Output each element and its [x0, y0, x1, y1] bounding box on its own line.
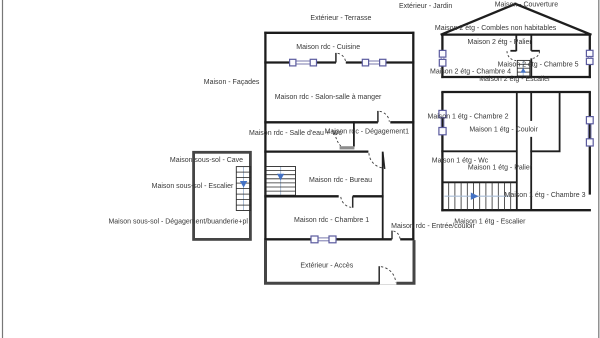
window W5 2etg right: [586, 50, 593, 64]
label: Maison rdc - Entree/couloir: [391, 223, 475, 230]
svg-text:Maison 1 étg - Couloir: Maison 1 étg - Couloir: [469, 127, 538, 134]
door: salon/degagement1 (leaf + swing): [378, 111, 389, 122]
door: cuisine (leaf + swing): [336, 53, 346, 63]
wall: sous-sol box: [194, 152, 251, 239]
page left edge: [2, 0, 4, 338]
wall: 2etg palier right vertical + jamb: [531, 35, 540, 78]
label: Maison 2 etg - Escalier: [479, 76, 551, 83]
wall: 2etg palier left vertical + jamb: [510, 35, 516, 52]
door swing: wc dashed arc: [335, 133, 341, 146]
window W7 1etg right: [586, 117, 593, 146]
label: Exterieur - Acces: [300, 262, 353, 269]
arrow: sous-sol stairs down arrow: [240, 181, 247, 188]
window W6 1etg left: [439, 110, 446, 134]
svg-text:Maison 1 étg - Wc: Maison 1 étg - Wc: [432, 157, 489, 164]
wall: 2etg outer: [441, 35, 591, 79]
wall: acces left/bottom/right thick: [266, 240, 415, 283]
wall: 1etg chambre2/wc horizontal: [441, 150, 517, 152]
svg-text:Maison 2 étg - Combles non hab: Maison 2 étg - Combles non habitables: [435, 25, 557, 32]
wall: salle d'eau bottom: [264, 150, 368, 152]
wall: wc/degagement vertical: [353, 121, 355, 146]
label: Maison rdc - Bureau: [309, 177, 372, 184]
label: Maison rdc - Salon-salle a manger: [275, 94, 382, 101]
window W3 chambre1: [311, 236, 336, 243]
label: Maison 2 etg - Chambre 5: [498, 62, 579, 69]
label: Maison - Facades: [204, 79, 260, 86]
label: Maison sous-sol - Cave: [170, 157, 243, 164]
window W4 2etg left: [439, 50, 446, 66]
window W2 cuisine right: [362, 59, 386, 66]
label: Maison sous-sol - Degagement/buanderie: [108, 219, 248, 226]
door: acces entrance (leaf + swing): [379, 266, 396, 284]
label: Maison rdc - Cuisine: [296, 44, 360, 51]
wall: 1etg escalier top: [442, 181, 516, 183]
svg-text:Maison rdc - Bureau: Maison rdc - Bureau: [309, 177, 372, 184]
label: Maison 1 etg - Palier: [468, 165, 533, 172]
wall: 1etg outer: [441, 92, 591, 211]
label: Maison 2 etg - Combles non habitables: [435, 25, 557, 32]
door: wc pocket door (gray): [340, 146, 355, 149]
wall: rdc bottom (window wall): [264, 238, 414, 240]
label: Exterieur - Jardin: [399, 3, 452, 10]
wall: rdc outer right: [412, 32, 414, 240]
svg-text:Maison 1 étg - Escalier: Maison 1 étg - Escalier: [454, 218, 526, 225]
wall: rdc outer top: [264, 32, 414, 34]
svg-text:Maison sous-sol - Dégagement/b: Maison sous-sol - Dégagement/buanderie+p…: [108, 219, 248, 226]
svg-text:Maison - Façades: Maison - Façades: [204, 79, 260, 86]
svg-text:Maison 1 étg - Chambre 3: Maison 1 étg - Chambre 3: [505, 192, 586, 199]
roof: couverture: [441, 4, 592, 35]
stairs: 2etg escalier: [517, 60, 530, 76]
door swing: 2etg chambre4 dashed arc: [507, 51, 516, 60]
label: Maison rdc - Salle d'eau + Wc: [249, 130, 342, 137]
door: entree/acces (leaf + swing): [392, 231, 400, 240]
svg-text:Extérieur - Terrasse: Extérieur - Terrasse: [310, 15, 371, 22]
svg-text:Maison rdc - Chambre 1: Maison rdc - Chambre 1: [294, 217, 369, 224]
label: Maison sous-sol - Escalier: [152, 183, 234, 190]
wall: bureau/couloir vertical: [382, 152, 384, 240]
label: Maison 1 etg - Chambre 2: [428, 114, 509, 121]
arrow: rdc stairs down arrow: [277, 174, 284, 181]
label: Exterieur - Terrasse: [310, 15, 371, 22]
label: Maison 1 etg - Wc: [432, 157, 489, 164]
window W1 cuisine left: [290, 59, 317, 66]
svg-text:Extérieur - Accès: Extérieur - Accès: [300, 262, 353, 269]
label: Maison 2 etg - Chambre 4: [430, 68, 511, 75]
stairs: 1etg escalier: [449, 182, 511, 210]
svg-text:Maison sous-sol - Escalier: Maison sous-sol - Escalier: [152, 183, 234, 190]
wall: salon bottom: [264, 121, 414, 123]
label: Maison 1 etg - Couloir: [469, 127, 538, 134]
svg-text:Maison sous-sol - Cave: Maison sous-sol - Cave: [170, 157, 243, 164]
svg-text:Maison rdc - Salon-salle à man: Maison rdc - Salon-salle à manger: [275, 94, 382, 101]
svg-text:Maison 2 étg - Escalier: Maison 2 étg - Escalier: [479, 76, 551, 83]
door swing: 2etg chambre5 dashed arc: [532, 51, 540, 58]
stairs: sous-sol staircase: [236, 167, 250, 211]
wall: cuisine/salon window wall: [264, 61, 414, 63]
door: bureau/chambre1 (leaf + swing): [341, 196, 353, 207]
svg-text:Maison - Couverture: Maison - Couverture: [495, 1, 559, 8]
label: Maison 1 etg - Escalier: [454, 218, 526, 225]
door: degagement1/couloir (leaf + swing): [369, 152, 385, 169]
svg-text:Maison 2 étg - Palier: Maison 2 étg - Palier: [467, 39, 532, 46]
svg-text:Maison 2 étg - Chambre 4: Maison 2 étg - Chambre 4: [430, 68, 511, 75]
page right edge: [598, 0, 600, 338]
svg-text:Extérieur - Jardin: Extérieur - Jardin: [399, 3, 452, 10]
svg-text:Maison 1 étg - Chambre 2: Maison 1 étg - Chambre 2: [428, 114, 509, 121]
wall: 1etg chambre2/couloir vertical: [516, 92, 518, 210]
wall: rdc outer left: [264, 32, 266, 240]
label: Maison - Couverture: [495, 1, 559, 8]
svg-text:Maison rdc - Cuisine: Maison rdc - Cuisine: [296, 44, 360, 51]
wall: 1etg palier/chambre3 horizontal: [530, 150, 560, 152]
label: Maison 2 etg - Palier: [467, 39, 532, 46]
svg-text:Maison rdc - Dégagement1: Maison rdc - Dégagement1: [325, 128, 410, 135]
label: Maison rdc - Chambre 1: [294, 217, 369, 224]
wall: 1etg chambre3 left vertical: [559, 92, 561, 151]
wall: bureau bottom: [264, 195, 383, 197]
svg-text:Maison 1 étg - Palier: Maison 1 étg - Palier: [468, 165, 533, 172]
label: Maison rdc - Degagement1: [325, 128, 410, 135]
wall: 1etg couloir right vertical (door gap): [530, 92, 532, 210]
stairs: rdc bureau staircase: [266, 167, 296, 196]
label: Maison 1 etg - Chambre 3: [505, 192, 586, 199]
arrow: 2etg stairs up arrow: [520, 68, 526, 73]
arrow: 1etg stairs direction line + arrowhead: [445, 193, 510, 200]
